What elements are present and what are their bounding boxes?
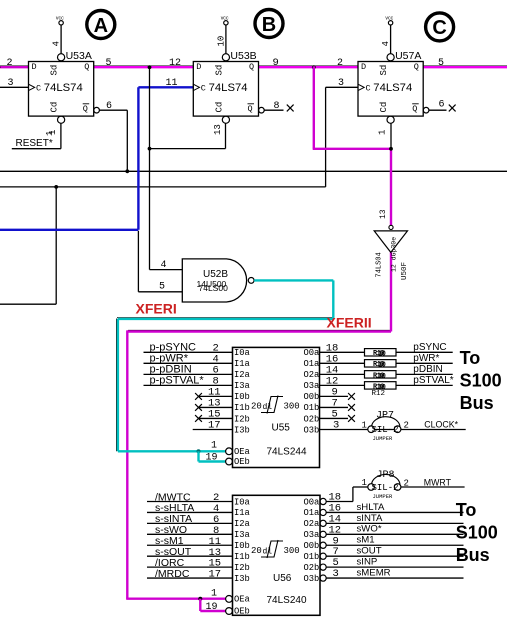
svg-text:JP7: JP7 xyxy=(376,410,394,421)
svg-text:3: 3 xyxy=(338,78,344,89)
svg-text:U56: U56 xyxy=(273,573,292,584)
svg-text:O2a: O2a xyxy=(304,519,320,529)
svg-text:R12: R12 xyxy=(372,390,386,398)
svg-text:C: C xyxy=(36,84,41,94)
svg-text:6: 6 xyxy=(106,101,112,112)
svg-text:OEb: OEb xyxy=(234,607,250,617)
svg-text:20: 20 xyxy=(251,402,262,412)
svg-text:I3b: I3b xyxy=(234,574,250,584)
svg-text:5: 5 xyxy=(106,58,112,69)
svg-text:B: B xyxy=(262,14,276,36)
svg-text:10: 10 xyxy=(378,362,386,370)
svg-text:Bus: Bus xyxy=(456,545,490,565)
svg-text:Q: Q xyxy=(83,104,88,114)
svg-text:2: 2 xyxy=(404,478,409,488)
svg-text:I2a: I2a xyxy=(234,519,250,529)
svg-text:pDBIN: pDBIN xyxy=(413,364,442,375)
svg-text:20: 20 xyxy=(251,546,262,556)
svg-text:D: D xyxy=(32,62,37,72)
svg-text:sINP: sINP xyxy=(357,557,378,568)
svg-text:6: 6 xyxy=(439,100,445,111)
svg-text:10: 10 xyxy=(378,351,386,359)
svg-text:To: To xyxy=(456,500,477,520)
svg-text:CLOCK*: CLOCK* xyxy=(424,420,458,430)
svg-text:C: C xyxy=(432,17,446,39)
svg-text:S100: S100 xyxy=(456,523,498,543)
svg-text:OEb: OEb xyxy=(234,457,250,467)
svg-text:Sd: Sd xyxy=(379,65,389,76)
svg-text:C: C xyxy=(201,84,206,94)
svg-text:74LS00: 74LS00 xyxy=(199,283,229,293)
svg-text:Q: Q xyxy=(249,62,254,72)
svg-text:/MRDC: /MRDC xyxy=(155,568,190,580)
svg-text:I3a: I3a xyxy=(234,381,250,391)
svg-text:5: 5 xyxy=(159,282,165,293)
svg-text:sWO*: sWO* xyxy=(357,524,382,535)
svg-text:O3b: O3b xyxy=(304,425,320,435)
svg-text:O2b: O2b xyxy=(304,414,320,424)
svg-text:12 dGp30e: 12 dGp30e xyxy=(391,237,398,272)
svg-text:I1b: I1b xyxy=(234,403,250,413)
svg-text:I1b: I1b xyxy=(234,552,250,562)
svg-text:19: 19 xyxy=(206,452,218,463)
svg-text:U53A: U53A xyxy=(66,50,92,62)
svg-text:13: 13 xyxy=(213,124,223,135)
svg-text:300: 300 xyxy=(284,402,300,412)
svg-text:To: To xyxy=(460,348,481,368)
svg-text:74LS240: 74LS240 xyxy=(267,595,307,606)
svg-text:2: 2 xyxy=(337,58,343,69)
svg-text:C: C xyxy=(366,84,371,94)
svg-text:SIL-2: SIL-2 xyxy=(372,425,399,435)
svg-text:I0a: I0a xyxy=(234,348,250,358)
svg-text:O3a: O3a xyxy=(304,530,320,540)
svg-text:U53B: U53B xyxy=(230,50,256,62)
svg-text:74LS244: 74LS244 xyxy=(267,446,307,457)
svg-text:pSYNC: pSYNC xyxy=(413,342,446,353)
svg-text:11: 11 xyxy=(166,78,178,89)
svg-text:2: 2 xyxy=(404,421,409,431)
svg-text:D: D xyxy=(361,62,366,72)
svg-text:I1a: I1a xyxy=(234,508,250,518)
svg-text:17: 17 xyxy=(208,420,221,432)
svg-text:4: 4 xyxy=(161,260,167,271)
svg-text:JUMPER: JUMPER xyxy=(373,435,394,442)
svg-text:1: 1 xyxy=(45,131,55,136)
svg-text:pWR*: pWR* xyxy=(413,353,439,364)
svg-text:D: D xyxy=(196,62,201,72)
svg-text:Q: Q xyxy=(84,62,89,72)
svg-text:sHLTA: sHLTA xyxy=(357,502,385,513)
svg-text:Cd: Cd xyxy=(50,102,60,113)
svg-text:I0b: I0b xyxy=(234,541,250,551)
svg-text:2: 2 xyxy=(7,58,13,69)
svg-text:U57A: U57A xyxy=(395,50,421,62)
svg-text:sINTA: sINTA xyxy=(357,513,384,524)
svg-text:dl: dl xyxy=(263,403,273,412)
svg-text:O0a: O0a xyxy=(304,348,320,358)
svg-text:Sd: Sd xyxy=(214,65,224,76)
svg-text:300: 300 xyxy=(284,546,300,556)
svg-text:10: 10 xyxy=(216,36,226,47)
svg-text:dl: dl xyxy=(263,548,273,557)
svg-text:O2b: O2b xyxy=(304,563,320,573)
svg-text:74LS74: 74LS74 xyxy=(373,82,412,94)
svg-text:12: 12 xyxy=(169,58,181,69)
svg-text:I2b: I2b xyxy=(234,563,250,573)
svg-text:O1b: O1b xyxy=(304,552,320,562)
svg-text:U50F: U50F xyxy=(401,262,409,280)
svg-text:XFERII: XFERII xyxy=(327,315,372,331)
svg-text:A: A xyxy=(94,15,108,37)
svg-text:19: 19 xyxy=(206,602,218,613)
svg-text:O0a: O0a xyxy=(304,497,320,507)
svg-text:sM1: sM1 xyxy=(357,535,375,546)
svg-text:Sd: Sd xyxy=(50,65,60,76)
svg-text:XFERI: XFERI xyxy=(136,301,177,317)
svg-text:RESET*: RESET* xyxy=(16,138,53,149)
svg-text:9: 9 xyxy=(273,57,279,69)
svg-text:O2a: O2a xyxy=(304,370,320,380)
svg-text:1: 1 xyxy=(211,588,217,599)
svg-text:O0b: O0b xyxy=(304,392,320,402)
svg-text:Q: Q xyxy=(414,62,419,72)
svg-text:S100: S100 xyxy=(460,371,502,391)
svg-text:O1b: O1b xyxy=(304,403,320,413)
svg-text:4: 4 xyxy=(381,41,391,46)
svg-text:O1a: O1a xyxy=(304,359,320,369)
svg-text:3: 3 xyxy=(333,420,339,432)
svg-text:I0b: I0b xyxy=(234,392,250,402)
svg-text:p-pSTVAL*: p-pSTVAL* xyxy=(150,374,205,386)
svg-text:13: 13 xyxy=(379,209,388,219)
svg-text:1: 1 xyxy=(378,130,388,135)
svg-text:sOUT: sOUT xyxy=(357,546,382,557)
svg-text:Q: Q xyxy=(412,104,417,114)
svg-text:O1a: O1a xyxy=(304,508,320,518)
svg-text:I1a: I1a xyxy=(234,359,250,369)
svg-text:I3a: I3a xyxy=(234,530,250,540)
svg-text:I2b: I2b xyxy=(234,414,250,424)
svg-text:U55: U55 xyxy=(272,423,291,434)
svg-text:74LS74: 74LS74 xyxy=(44,82,83,94)
svg-text:1: 1 xyxy=(211,441,217,452)
svg-text:4: 4 xyxy=(52,41,62,46)
svg-text:Q: Q xyxy=(248,104,253,114)
svg-text:O0b: O0b xyxy=(304,541,320,551)
svg-text:Cd: Cd xyxy=(379,102,389,113)
svg-text:1: 1 xyxy=(362,478,367,488)
svg-text:1: 1 xyxy=(362,420,367,430)
svg-text:Cd: Cd xyxy=(214,102,224,113)
svg-text:74LS74: 74LS74 xyxy=(209,82,248,94)
svg-text:OEa: OEa xyxy=(234,447,250,457)
svg-text:3: 3 xyxy=(333,568,339,580)
svg-text:I0a: I0a xyxy=(234,497,250,507)
svg-text:10: 10 xyxy=(378,373,386,381)
svg-text:I2a: I2a xyxy=(234,370,250,380)
svg-text:pSTVAL*: pSTVAL* xyxy=(413,375,453,386)
svg-text:17: 17 xyxy=(209,569,222,581)
svg-text:I3b: I3b xyxy=(234,425,250,435)
svg-text:JUMPER: JUMPER xyxy=(373,493,394,500)
svg-text:O3b: O3b xyxy=(304,574,320,584)
svg-text:OEa: OEa xyxy=(234,595,250,605)
svg-text:sMEMR: sMEMR xyxy=(357,567,391,578)
svg-text:MWRT: MWRT xyxy=(424,477,452,487)
svg-text:SIL-2: SIL-2 xyxy=(372,483,399,493)
svg-text:Bus: Bus xyxy=(460,393,494,413)
svg-text:74LS04: 74LS04 xyxy=(376,252,384,277)
svg-text:O3a: O3a xyxy=(304,381,320,391)
svg-text:5: 5 xyxy=(438,58,444,69)
